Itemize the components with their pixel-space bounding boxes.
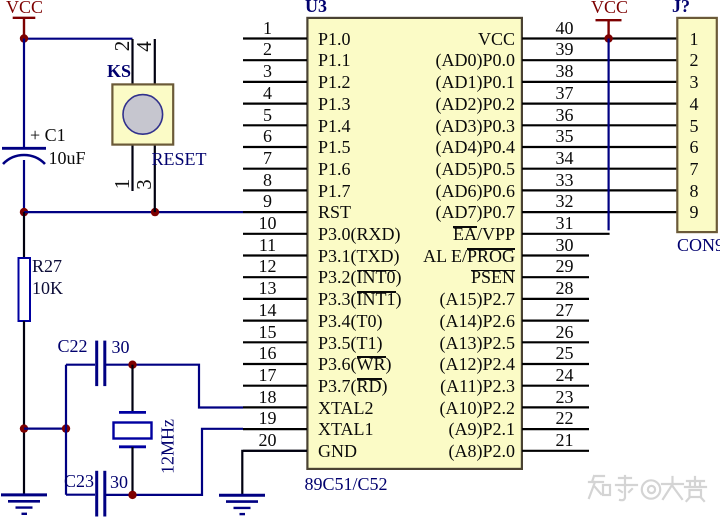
net label VCC (right) <box>591 0 628 18</box>
U3 pin 28 name (A15)P2.7 <box>440 288 516 310</box>
U3 pin 19 lead <box>243 428 307 430</box>
J? pin number 9 <box>674 201 714 223</box>
U3 pin number 3 <box>248 60 288 82</box>
ground symbol (left rail) <box>1 495 47 514</box>
U3 pin 19 name XTAL1 <box>318 418 374 440</box>
wire U3 GND pin to ground <box>242 451 307 495</box>
junction dot RST net at C1/R27 <box>20 208 28 216</box>
pushbutton KS pin 1 lead <box>131 146 133 192</box>
capacitor C22 plates <box>97 341 105 387</box>
U3 pin number 36 <box>545 104 585 126</box>
U3 pin 31 name EA/VPP <box>453 223 515 245</box>
U3 pin 20 name GND <box>318 440 357 462</box>
U3 pin 6 name P1.5 <box>318 136 351 158</box>
U3 pin 30 name AL E/PROG <box>423 245 515 267</box>
U3 pin 14 lead <box>243 320 307 322</box>
pushbutton KS cap circle <box>123 95 163 135</box>
crystal Y1 12MHz symbol <box>114 412 152 446</box>
U3 pin 30 lead <box>522 254 589 256</box>
U3 pin 33 name (AD6)P0.6 <box>436 180 516 202</box>
U3 pin 9 name RST <box>318 201 351 223</box>
label C22 value 30 <box>112 336 130 358</box>
U3 pin 15 lead <box>243 341 307 343</box>
U3 pin 36 name (AD3)P0.3 <box>436 115 516 137</box>
U3 pin number 40 <box>545 17 585 39</box>
U3 pin 20 lead <box>243 450 307 452</box>
wire RST net horizontal to U3 pin 9 <box>24 211 243 213</box>
U3 pin number 21 <box>545 429 585 451</box>
U3 pin 24 lead <box>522 385 589 387</box>
U3 pin 39 lead <box>522 59 677 61</box>
J? pin number 4 <box>674 93 714 115</box>
wire VCC node down to C1 top plate <box>23 39 25 149</box>
U3 pin number 9 <box>248 190 288 212</box>
U3 pin 26 name (A13)P2.5 <box>440 332 516 354</box>
pushbutton KS pin 2 lead <box>131 39 133 84</box>
U3 pin number 16 <box>248 342 288 364</box>
U3 pin number 25 <box>545 342 585 364</box>
U3 pin 28 lead <box>522 298 589 300</box>
U3 pin number 30 <box>545 234 585 256</box>
U3 pin 34 lead <box>522 168 677 170</box>
net label VCC (left) <box>6 0 43 18</box>
U3 pin 37 name (AD2)P0.2 <box>436 93 516 115</box>
U3 pin number 12 <box>248 255 288 277</box>
wire crystal bottom lead <box>131 447 133 495</box>
U3 pin number 14 <box>248 299 288 321</box>
U3 pin 29 name PSEN <box>471 266 515 288</box>
label J? part CON9 <box>677 234 720 256</box>
label C1 value 10uF <box>49 147 86 169</box>
U3 pin 7 name P1.6 <box>318 158 351 180</box>
U3 pin 38 lead <box>522 81 677 83</box>
U3 pin 17 name P3.7(RD) <box>318 375 388 397</box>
U3 pin 18 lead <box>243 406 307 408</box>
junction dot VCC net pin 40 <box>604 34 612 42</box>
U3 pin 18 name XTAL2 <box>318 397 374 419</box>
J? pin number 1 <box>674 28 714 50</box>
U3 pin 15 name P3.5(T1) <box>318 332 383 354</box>
label R27 value 10K <box>32 277 63 299</box>
U3 pin number 17 <box>248 364 288 386</box>
U3 pin number 29 <box>545 255 585 277</box>
wire RST net down to R27 <box>23 212 25 258</box>
U3 pin 22 name (A9)P2.1 <box>449 418 516 440</box>
U3 pin 5 name P1.4 <box>318 115 351 137</box>
U3 pin 6 lead <box>243 146 307 148</box>
U3 pin 22 lead <box>522 428 589 430</box>
junction dot ground net at R27 branch <box>20 424 28 432</box>
U3 pin 2 name P1.1 <box>318 49 351 71</box>
U3 pin 13 name P3.3(INT1) <box>318 288 402 310</box>
U3 pin 23 name (A10)P2.2 <box>440 397 516 419</box>
U3 pin number 37 <box>545 82 585 104</box>
label C1 designator <box>30 124 66 146</box>
U3 pin 3 name P1.2 <box>318 71 351 93</box>
label C22 designator <box>58 335 88 357</box>
U3 pin 17 lead <box>243 385 307 387</box>
svg-text:12MHz: 12MHz <box>157 419 177 474</box>
U3 pin 37 lead <box>522 102 677 104</box>
U3 pin 11 lead <box>243 254 307 256</box>
U3 pin number 34 <box>545 147 585 169</box>
U3 pin 36 lead <box>522 124 677 126</box>
power symbol VCC (right) <box>596 20 622 38</box>
U3 pin 27 name (A14)P2.6 <box>440 310 516 332</box>
U3 pin 29 lead <box>522 276 589 278</box>
U3 pin 16 lead <box>243 363 307 365</box>
U3 pin 27 lead <box>522 320 589 322</box>
U3 pin number 19 <box>248 407 288 429</box>
U3 pin 31 lead <box>522 233 610 235</box>
pushbutton KS body <box>112 84 173 144</box>
label C23 value 30 <box>110 471 128 493</box>
power symbol VCC (left) <box>13 18 36 39</box>
label KS designator <box>107 60 131 82</box>
U3 pin 24 name (A11)P2.3 <box>440 375 515 397</box>
U3 pin number 1 <box>248 17 288 39</box>
U3 pin 34 name (AD5)P0.5 <box>436 158 516 180</box>
U3 pin 25 name (A12)P2.4 <box>440 353 516 375</box>
U3 pin 21 lead <box>522 450 589 452</box>
U3 pin number 20 <box>248 429 288 451</box>
U3 pin 1 name P1.0 <box>318 28 351 50</box>
U3 pin number 22 <box>545 407 585 429</box>
U3 pin 23 lead <box>522 406 589 408</box>
svg-text:1: 1 <box>110 179 134 190</box>
junction dot XTAL2 net at crystal top <box>128 361 136 369</box>
U3 pin number 35 <box>545 125 585 147</box>
resistor R27 body <box>19 258 31 321</box>
J? pin number 5 <box>674 115 714 137</box>
U3 pin number 7 <box>248 147 288 169</box>
U3 pin 32 name (AD7)P0.7 <box>436 201 516 223</box>
label RESET net <box>152 148 207 170</box>
U3 pin 7 lead <box>243 168 307 170</box>
watermark zhihu @dahuang <box>589 476 706 501</box>
label U3 part number 89C51/C52 <box>305 473 388 495</box>
U3 pin number 11 <box>248 234 288 256</box>
U3 pin 25 lead <box>522 363 589 365</box>
U3 pin 4 lead <box>243 102 307 104</box>
U3 pin number 18 <box>248 386 288 408</box>
U3 pin 40 lead <box>522 37 677 39</box>
ground symbol (U3 GND) <box>219 495 265 514</box>
U3 pin 8 lead <box>243 189 307 191</box>
U3 pin 35 lead <box>522 146 677 148</box>
label J? designator <box>672 0 690 17</box>
J? pin number 7 <box>674 158 714 180</box>
U3 pin number 4 <box>248 82 288 104</box>
U3 pin 35 name (AD4)P0.4 <box>436 136 516 158</box>
svg-text:2: 2 <box>110 41 134 52</box>
U3 pin 39 name (AD0)P0.0 <box>436 49 516 71</box>
U3 pin 11 name P3.1(TXD) <box>318 245 400 267</box>
U3 pin number 32 <box>545 190 585 212</box>
U3 pin number 31 <box>545 212 585 234</box>
junction dot oscillator cap rail <box>62 424 70 432</box>
wire cap rail vertical C22 to C23 <box>65 365 67 495</box>
U3 pin 38 name (AD1)P0.1 <box>436 71 516 93</box>
svg-text:3: 3 <box>132 179 156 190</box>
U3 pin 5 lead <box>243 124 307 126</box>
junction dot VCC/C1/KS node <box>20 34 28 42</box>
U3 pin number 13 <box>248 277 288 299</box>
U3 pin 13 lead <box>243 298 307 300</box>
U3 pin number 27 <box>545 299 585 321</box>
J? pin number 6 <box>674 136 714 158</box>
label U3 designator <box>305 0 327 17</box>
U3 pin number 39 <box>545 38 585 60</box>
label R27 designator <box>32 255 62 277</box>
wire R27 bottom to ground node <box>23 321 25 495</box>
U3 pin 33 lead <box>522 189 677 191</box>
U3 pin number 23 <box>545 386 585 408</box>
pushbutton KS pin 4 lead <box>154 39 156 84</box>
junction dot XTAL1 net at crystal bottom <box>128 491 136 499</box>
J? pin number 3 <box>674 71 714 93</box>
U3 pin number 15 <box>248 321 288 343</box>
wire ground branch to oscillator caps <box>24 428 66 430</box>
U3 pin 2 lead <box>243 59 307 61</box>
U3 pin 40 name VCC <box>478 28 515 50</box>
U3 pin number 2 <box>248 38 288 60</box>
capacitor C1 symbol <box>2 148 46 164</box>
U3 pin 21 name (A8)P2.0 <box>449 440 516 462</box>
U3 pin 32 lead <box>522 211 677 213</box>
J? pin number 2 <box>674 49 714 71</box>
IC U3 89C51/C52 body <box>307 18 522 469</box>
U3 pin number 5 <box>248 104 288 126</box>
U3 pin number 8 <box>248 169 288 191</box>
U3 pin 3 lead <box>243 81 307 83</box>
label C23 designator <box>64 470 94 492</box>
U3 pin 8 name P1.7 <box>318 180 351 202</box>
U3 pin 16 name P3.6(WR) <box>318 353 392 375</box>
U3 pin number 24 <box>545 364 585 386</box>
J? pin number 8 <box>674 180 714 202</box>
wire VCC to EA/VPP pin 31 <box>607 39 609 231</box>
wire C23 right lead to XTAL1 corner <box>106 429 243 495</box>
wire C1 bottom to RST net <box>23 160 25 212</box>
U3 pin 10 lead <box>243 233 307 235</box>
wire VCC junction to KS pin 2 (top) <box>24 38 133 40</box>
wire C22 right lead to XTAL2 corner <box>106 365 243 408</box>
U3 pin 26 lead <box>522 341 589 343</box>
U3 pin number 38 <box>545 60 585 82</box>
capacitor C23 plates <box>97 471 105 517</box>
U3 pin 10 name P3.0(RXD) <box>318 223 401 245</box>
junction dot RST net at KS pin 3 <box>151 208 159 216</box>
wire C23 left lead <box>66 494 95 496</box>
U3 pin number 28 <box>545 277 585 299</box>
U3 pin number 26 <box>545 321 585 343</box>
U3 pin 12 name P3.2(INT0) <box>318 266 402 288</box>
U3 pin 4 name P1.3 <box>318 93 351 115</box>
U3 pin number 10 <box>248 212 288 234</box>
svg-text:4: 4 <box>132 41 156 52</box>
wire crystal top lead <box>131 365 133 412</box>
pushbutton KS pin 3 lead <box>154 146 156 213</box>
connector J? CON9 body <box>677 18 717 232</box>
wire C22 left lead <box>66 364 95 366</box>
U3 pin 9 lead <box>243 211 307 213</box>
U3 pin number 6 <box>248 125 288 147</box>
U3 pin 14 name P3.4(T0) <box>318 310 383 332</box>
U3 pin number 33 <box>545 169 585 191</box>
U3 pin 12 lead <box>243 276 307 278</box>
U3 pin 1 lead <box>243 37 307 39</box>
